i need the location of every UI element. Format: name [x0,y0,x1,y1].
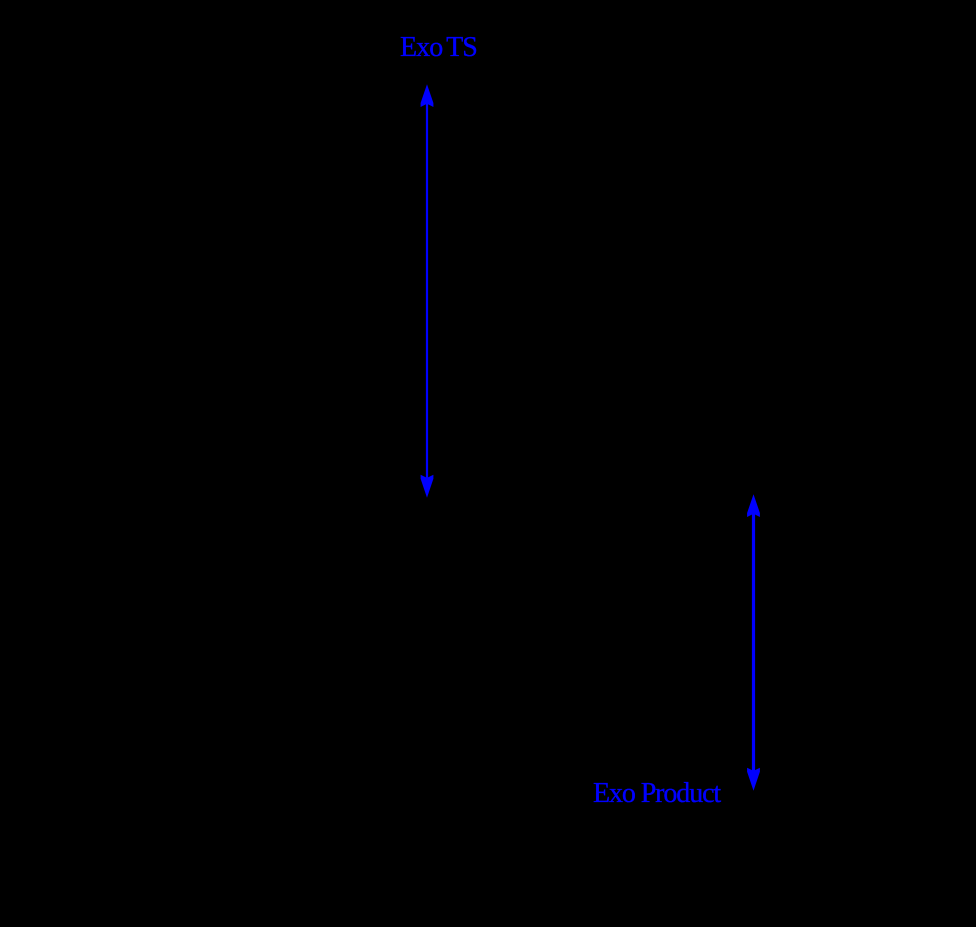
arrowhead A top [421,84,434,107]
double-headed arrow A (Exo TS energy gap) [421,84,434,498]
wire shaft A [426,100,428,480]
label Exo Product [593,780,720,808]
arrowhead B bottom [747,768,760,791]
arrowhead B top [747,494,760,517]
label Exo TS [400,34,477,62]
wire shaft B [752,510,755,772]
arrowhead A bottom [421,475,434,498]
double-headed arrow B (Exo Product energy gap) [747,494,760,791]
